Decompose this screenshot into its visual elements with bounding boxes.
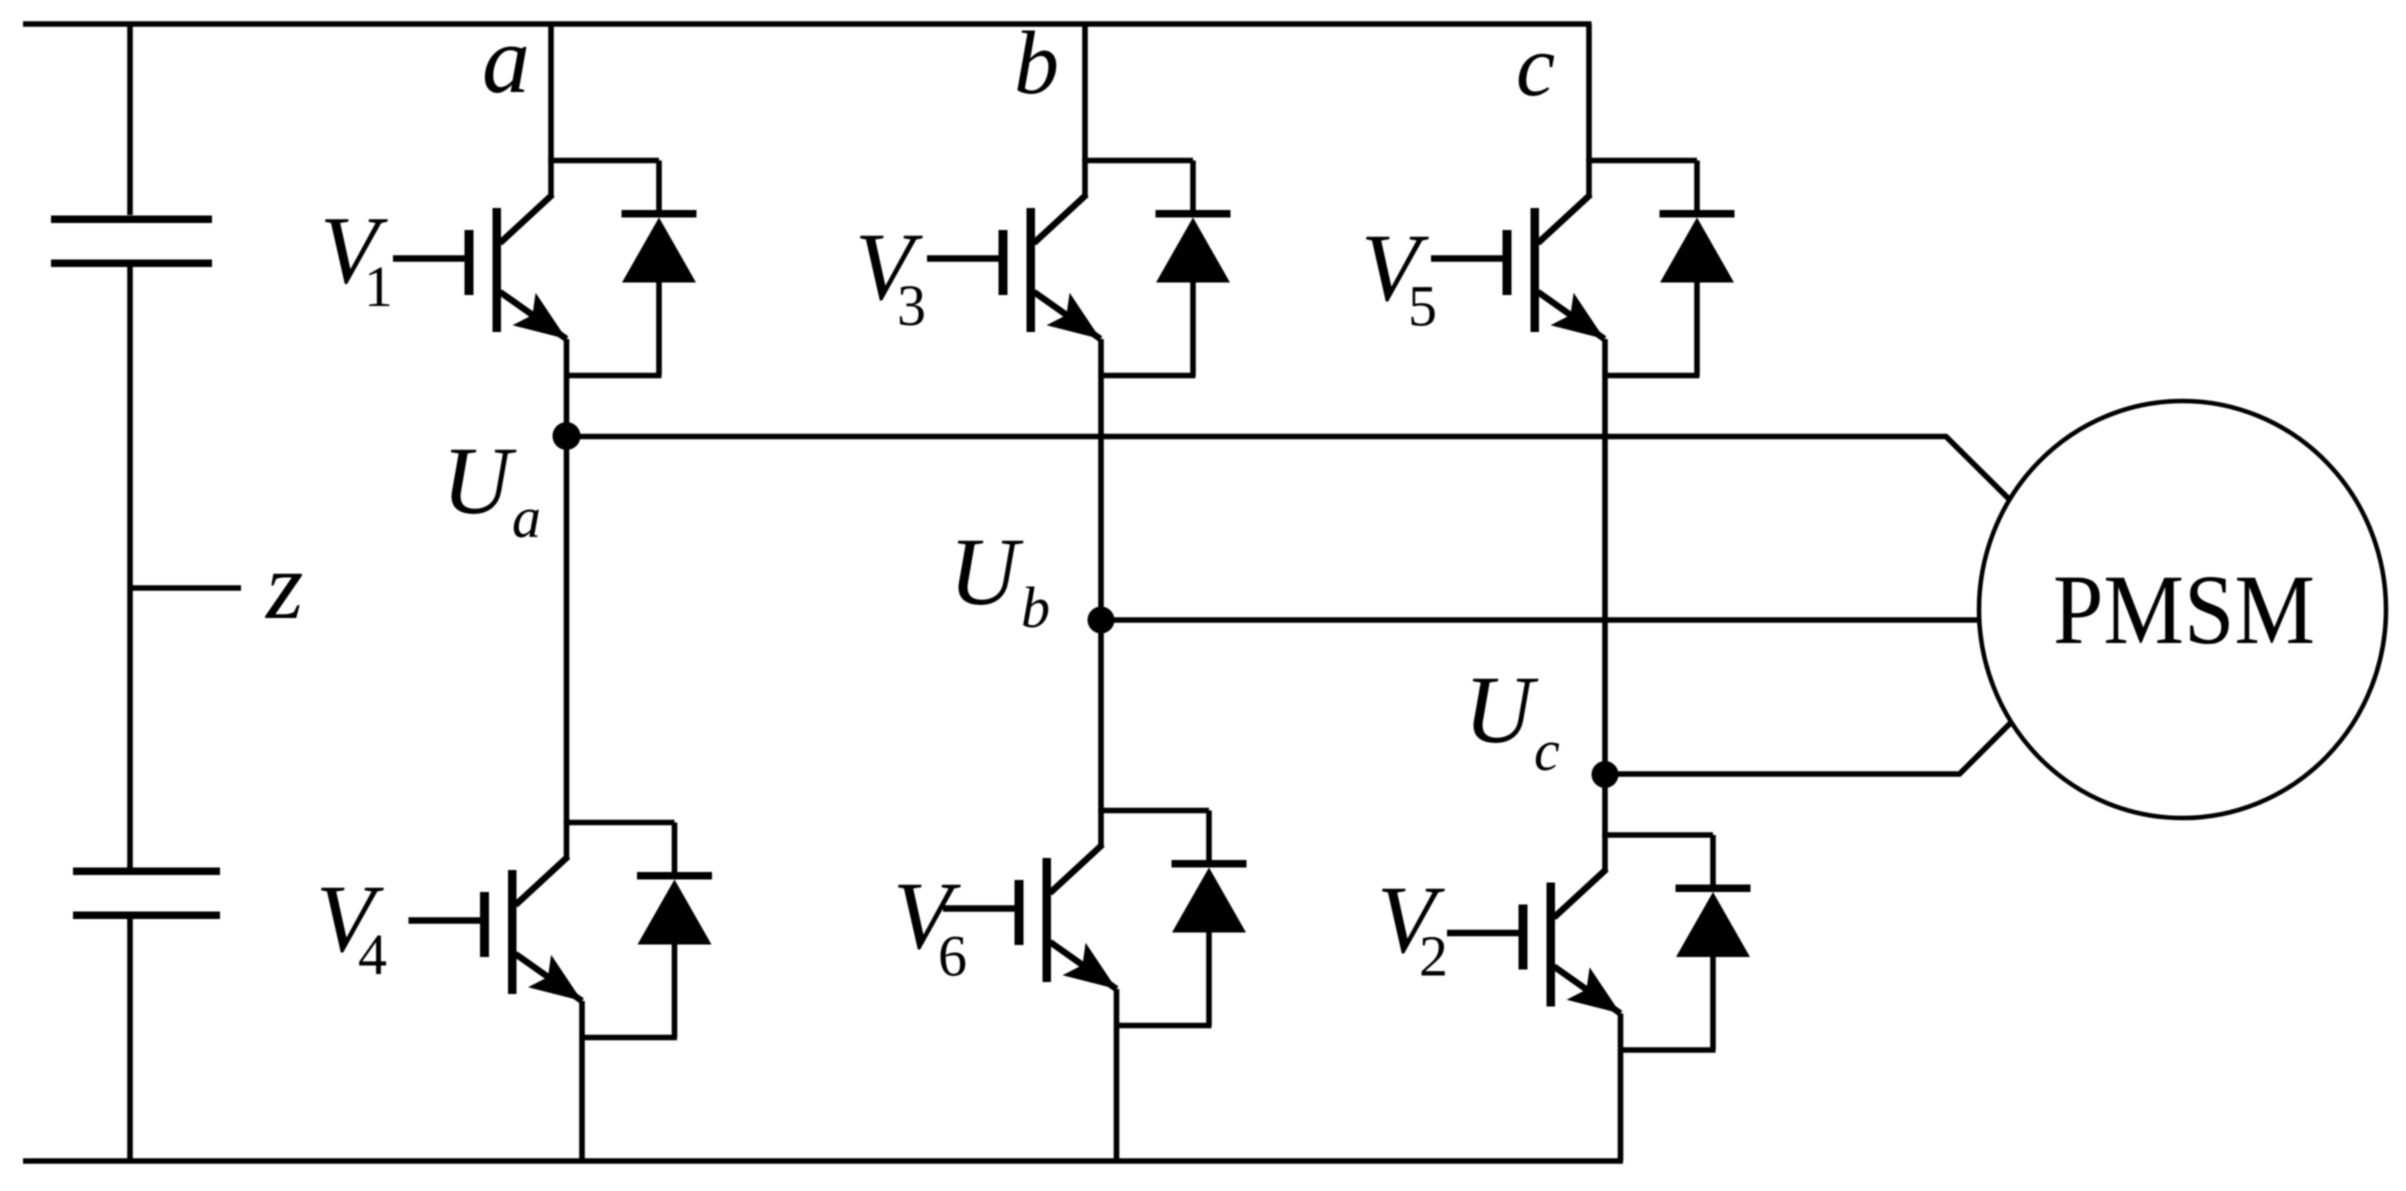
svg-text:b: b (1021, 575, 1050, 640)
svg-text:a: a (512, 485, 541, 550)
svg-text:PMSM: PMSM (2053, 554, 2315, 665)
diode D2 (1621, 835, 1751, 1050)
wire Ub to PMSM (1101, 617, 1977, 623)
diode D5 (1605, 161, 1735, 376)
svg-text:6: 6 (938, 924, 967, 989)
transistor V6 (1050, 809, 1209, 990)
transistor V3 (1034, 159, 1193, 340)
wire top DC bus rail (23, 21, 1592, 27)
transistor V1 (500, 159, 659, 340)
svg-text:a: a (482, 6, 530, 113)
wire C2 to bottom rail (127, 919, 133, 1161)
capacitor C2 (lower DC-link) (73, 868, 220, 920)
transistor V4 (516, 821, 675, 1002)
motor PMSM circle (1979, 401, 2386, 818)
node Ua junction dot (553, 422, 581, 450)
diode D4 (582, 823, 712, 1038)
wire V4 emitter to bottom rail (579, 1001, 585, 1161)
wire V2 emitter to bottom rail (1618, 1014, 1624, 1162)
svg-text:U: U (442, 427, 517, 534)
wire Ua to PMSM (567, 437, 2011, 501)
transistor V2 (1554, 833, 1713, 1014)
svg-text:2: 2 (1419, 924, 1448, 989)
svg-text:U: U (1464, 656, 1539, 763)
diode D3 (1101, 161, 1231, 376)
svg-text:U: U (949, 518, 1024, 625)
svg-text:b: b (1014, 14, 1059, 113)
svg-text:c: c (1516, 18, 1555, 115)
diode D6 (1117, 811, 1247, 1026)
wire bottom DC bus rail (23, 1158, 1623, 1164)
capacitor C1 (upper DC-link) (51, 216, 212, 268)
svg-text:1: 1 (364, 254, 393, 319)
wire Uc to PMSM (1605, 722, 2012, 775)
svg-text:4: 4 (358, 922, 387, 987)
wire V6 emitter to bottom rail (1114, 989, 1120, 1161)
node z stub wire (130, 585, 241, 591)
wire phase c from top rail (1586, 24, 1592, 162)
wire DC-link left vertical (127, 24, 133, 215)
wire phase c leg (1602, 339, 1608, 838)
wire phase a from top rail (548, 24, 554, 162)
wire phase a leg (564, 339, 570, 825)
diode D1 (567, 161, 697, 376)
svg-text:5: 5 (1408, 274, 1437, 339)
wire phase b from top rail (1082, 24, 1088, 162)
svg-text:3: 3 (897, 273, 926, 338)
wire between C1 and C2 (127, 267, 133, 868)
node Uc junction dot (1592, 761, 1619, 788)
svg-text:c: c (1534, 718, 1560, 783)
node Ub junction dot (1088, 607, 1115, 634)
svg-text:z: z (264, 532, 303, 639)
transistor V5 (1538, 159, 1697, 340)
wire phase b leg (1098, 339, 1104, 813)
